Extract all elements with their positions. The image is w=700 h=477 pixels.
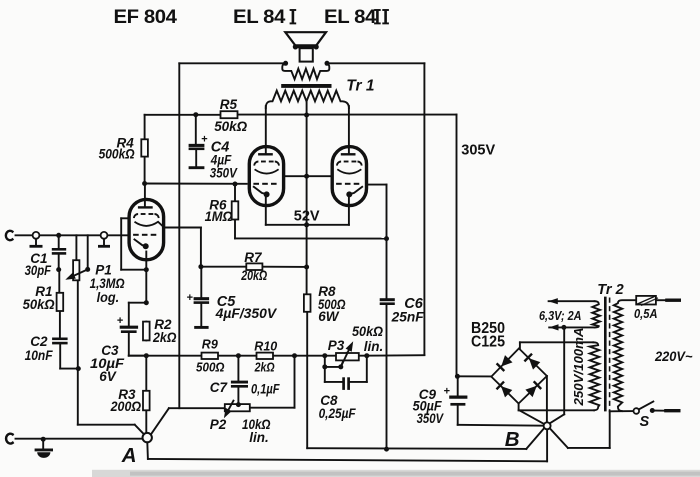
svg-text:log.: log. <box>97 290 120 305</box>
svg-text:R7: R7 <box>244 250 263 265</box>
svg-text:C2: C2 <box>30 334 48 349</box>
svg-text:220V~: 220V~ <box>654 349 693 364</box>
svg-text:10nF: 10nF <box>25 348 54 363</box>
svg-text:200Ω: 200Ω <box>110 399 142 414</box>
svg-text:50kΩ: 50kΩ <box>352 324 383 339</box>
svg-text:350V: 350V <box>417 411 444 426</box>
svg-text:Tr 2: Tr 2 <box>597 282 623 298</box>
svg-text:4µF/350V: 4µF/350V <box>215 306 278 321</box>
svg-text:C7: C7 <box>210 380 229 395</box>
svg-text:C125: C125 <box>471 333 505 350</box>
svg-text:305V: 305V <box>461 143 495 159</box>
svg-text:+: + <box>117 315 123 327</box>
svg-text:500Ω: 500Ω <box>196 361 225 375</box>
svg-text:6W: 6W <box>318 309 340 324</box>
svg-text:50kΩ: 50kΩ <box>214 119 247 134</box>
svg-text:lin.: lin. <box>364 339 384 354</box>
svg-text:1MΩ: 1MΩ <box>205 209 233 224</box>
svg-text:Tr 1: Tr 1 <box>346 77 374 94</box>
svg-text:20kΩ: 20kΩ <box>240 268 267 283</box>
svg-text:EL 84: EL 84 <box>324 6 377 28</box>
svg-text:6,3V; 2A: 6,3V; 2A <box>539 309 582 323</box>
svg-text:0,5A: 0,5A <box>634 307 658 321</box>
svg-text:P3: P3 <box>328 338 345 353</box>
svg-text:52V: 52V <box>294 209 320 225</box>
svg-text:+: + <box>201 134 207 146</box>
svg-text:R9: R9 <box>202 338 218 352</box>
svg-text:A: A <box>121 444 137 467</box>
svg-text:250V/100mA: 250V/100mA <box>572 328 586 407</box>
svg-text:30pF: 30pF <box>25 263 52 278</box>
svg-text:2kΩ: 2kΩ <box>254 361 275 375</box>
svg-text:0,1µF: 0,1µF <box>251 382 280 397</box>
svg-text:2kΩ: 2kΩ <box>152 330 177 345</box>
svg-text:6V: 6V <box>99 369 117 384</box>
svg-text:1,3MΩ: 1,3MΩ <box>90 276 125 291</box>
svg-text:500kΩ: 500kΩ <box>99 147 135 162</box>
svg-text:R5: R5 <box>220 97 238 112</box>
svg-text:350V: 350V <box>210 166 238 181</box>
svg-text:+: + <box>444 386 450 398</box>
svg-text:S: S <box>640 414 650 430</box>
svg-text:+: + <box>187 292 193 304</box>
svg-text:B: B <box>505 428 520 451</box>
svg-text:50kΩ: 50kΩ <box>23 297 55 312</box>
svg-text:EF 804: EF 804 <box>114 6 178 28</box>
svg-text:25nF: 25nF <box>391 309 425 324</box>
svg-text:P2: P2 <box>210 417 227 432</box>
svg-text:0,25µF: 0,25µF <box>319 406 357 421</box>
svg-text:EL 84: EL 84 <box>233 6 286 28</box>
svg-text:R10: R10 <box>254 340 277 354</box>
svg-text:lin.: lin. <box>249 430 268 445</box>
